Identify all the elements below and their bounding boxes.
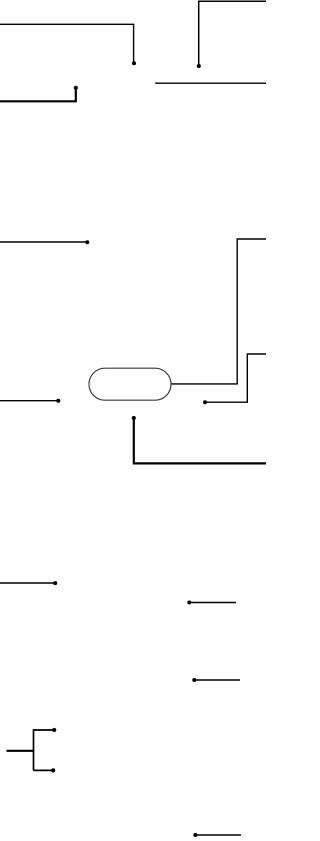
node [56,399,60,403]
wire [134,418,266,463]
node [193,833,197,837]
wire [205,354,266,402]
node [197,64,201,68]
wire [199,1,266,66]
wire [0,400,58,402]
wire [0,89,76,101]
wire [7,750,34,752]
wire [194,679,240,681]
node [132,416,136,420]
node [74,86,78,90]
node [203,400,207,404]
stub [88,383,90,386]
wire [172,239,267,384]
wire [0,582,55,584]
wire [33,729,35,770]
wire [189,602,236,604]
wire [34,729,55,731]
node [53,581,57,585]
wire [155,82,266,84]
node [192,678,196,682]
wire [0,24,134,63]
terminal oval [89,368,171,400]
node [51,768,55,772]
wire [195,834,241,836]
wire [0,241,87,243]
node [187,601,191,605]
node [85,240,89,244]
node [52,728,56,732]
wire [34,769,54,771]
node [132,61,136,65]
